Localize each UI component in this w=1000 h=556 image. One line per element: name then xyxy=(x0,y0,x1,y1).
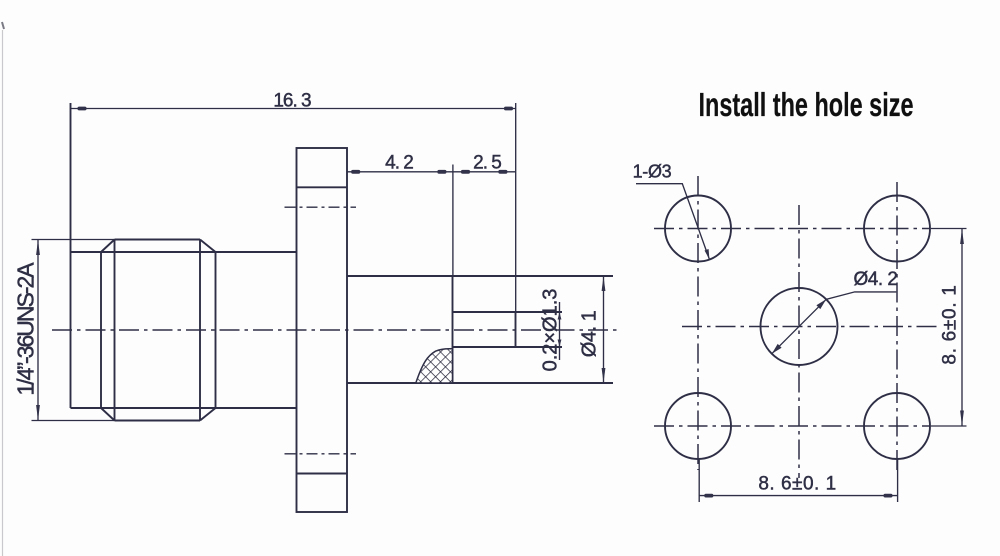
svg-text:1-Ø3: 1-Ø3 xyxy=(633,161,672,181)
svg-text:8. 6±0. 1: 8. 6±0. 1 xyxy=(940,284,961,364)
svg-text:2. 5: 2. 5 xyxy=(473,152,501,173)
svg-text:0.2×Ø1.3: 0.2×Ø1.3 xyxy=(540,289,562,372)
svg-text:8. 6±0. 1: 8. 6±0. 1 xyxy=(758,474,836,495)
svg-text:Install the hole size: Install the hole size xyxy=(699,86,914,123)
svg-text:4. 2: 4. 2 xyxy=(385,152,413,173)
svg-text:Ø4. 1: Ø4. 1 xyxy=(579,310,601,357)
svg-text:16. 3: 16. 3 xyxy=(273,91,311,112)
svg-text:Ø4. 2: Ø4. 2 xyxy=(854,269,898,290)
svg-text:1/4”-36UNS-2A: 1/4”-36UNS-2A xyxy=(13,262,39,396)
